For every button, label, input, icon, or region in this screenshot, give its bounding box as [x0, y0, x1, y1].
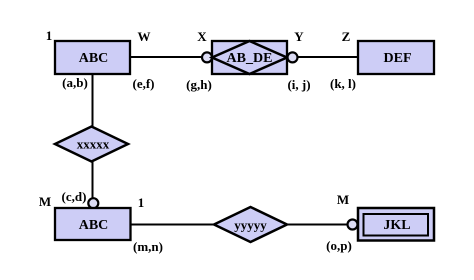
- node circle X: [202, 52, 212, 62]
- svg-text:(c,d): (c,d): [62, 189, 87, 204]
- node circle (c,d): [88, 198, 98, 208]
- svg-text:1: 1: [138, 195, 145, 210]
- svg-text:DEF: DEF: [384, 51, 412, 66]
- entity DEF: [358, 41, 434, 74]
- entity ABC (bottom): [55, 208, 131, 240]
- svg-text:(k, l): (k, l): [330, 76, 356, 91]
- svg-text:M: M: [337, 192, 349, 207]
- weak entity JKL: [358, 208, 434, 241]
- svg-text:W: W: [138, 29, 151, 44]
- svg-text:(a,b): (a,b): [62, 75, 88, 90]
- svg-text:(i, j): (i, j): [287, 77, 310, 92]
- svg-text:Y: Y: [294, 29, 304, 44]
- wire Z: circle Y to DEF: [297, 56, 358, 58]
- svg-text:Z: Z: [342, 29, 351, 44]
- relationship diamond xxxxx: [55, 127, 128, 162]
- entity ABC (top): [55, 41, 130, 74]
- svg-text:ABC: ABC: [79, 218, 109, 233]
- svg-text:ABC: ABC: [79, 51, 109, 66]
- wire: ABC down to diamond xxxxx: [92, 74, 94, 127]
- svg-text:xxxxx: xxxxx: [77, 137, 110, 152]
- svg-text:(g,h): (g,h): [186, 77, 212, 92]
- svg-text:M: M: [39, 194, 51, 209]
- relationship diamond yyyyy: [214, 207, 287, 242]
- node circle (o,p): [348, 220, 358, 230]
- svg-text:JKL: JKL: [383, 218, 410, 233]
- svg-text:1: 1: [46, 28, 53, 43]
- wire: ABC bottom to diamond yyyyy: [131, 224, 215, 226]
- node circle Y: [288, 52, 298, 62]
- svg-text:(e,f): (e,f): [132, 76, 154, 91]
- svg-text:X: X: [197, 29, 207, 44]
- svg-text:yyyyy: yyyyy: [234, 218, 267, 233]
- wire W: ABC to circle X: [130, 56, 202, 58]
- wire: diamond xxxxx down to circle (c,d): [92, 161, 94, 198]
- wire: diamond yyyyy to circle before JKL: [286, 224, 348, 226]
- svg-text:(o,p): (o,p): [326, 238, 352, 253]
- svg-text:AB_DE: AB_DE: [227, 51, 273, 66]
- svg-text:(m,n): (m,n): [133, 239, 163, 254]
- associative entity AB_DE: [212, 41, 287, 74]
